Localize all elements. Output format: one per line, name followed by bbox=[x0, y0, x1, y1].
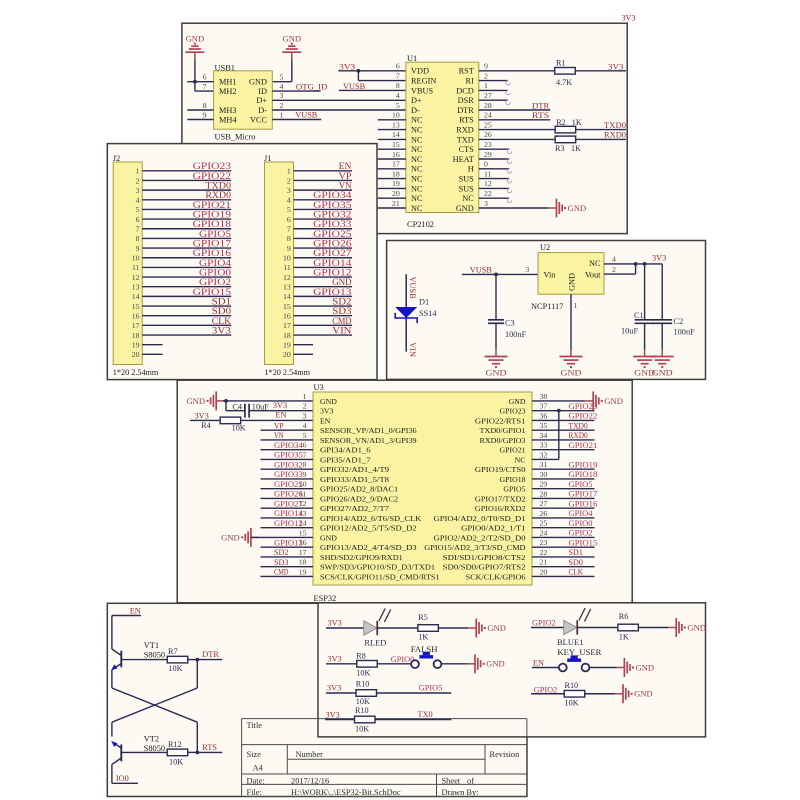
svg-text:GND: GND bbox=[186, 35, 205, 44]
svg-text:RXD: RXD bbox=[456, 126, 474, 135]
wires: U1 left NC stubs pins 10-21 bbox=[378, 120, 406, 208]
svg-text:VN: VN bbox=[339, 181, 352, 191]
svg-text:3V3: 3V3 bbox=[652, 253, 666, 262]
svg-text:SD1: SD1 bbox=[212, 296, 232, 306]
wire+label: U3 right pin 26 GPIO4 bbox=[532, 509, 595, 518]
svg-text:GND: GND bbox=[634, 690, 653, 699]
svg-text:7: 7 bbox=[303, 450, 307, 459]
svg-text:SDI/SD1/GPIO8/CTS2: SDI/SD1/GPIO8/CTS2 bbox=[443, 553, 526, 562]
svg-text:VP: VP bbox=[339, 171, 352, 181]
svg-text:GND: GND bbox=[249, 78, 267, 87]
net label 3V3 (R4 left) bbox=[195, 412, 209, 421]
resistor R8 10K bbox=[326, 651, 411, 677]
svg-text:2: 2 bbox=[484, 71, 488, 80]
ground: GPIO2 row bbox=[615, 684, 653, 703]
svg-text:GPIO17/TXD2: GPIO17/TXD2 bbox=[475, 494, 526, 503]
capacitor C4 10uF bbox=[226, 401, 313, 418]
ground: U3 pin38 bbox=[585, 391, 623, 410]
svg-text:1: 1 bbox=[303, 392, 307, 401]
svg-text:13: 13 bbox=[392, 120, 400, 129]
svg-text:RXD0: RXD0 bbox=[604, 131, 626, 140]
wire+label: U3 right pin 25 GPIO0 bbox=[532, 519, 595, 528]
svg-text:19: 19 bbox=[283, 340, 291, 349]
svg-text:14: 14 bbox=[283, 292, 291, 301]
svg-text:10: 10 bbox=[283, 254, 291, 263]
net labels: J2 pins bbox=[193, 161, 232, 335]
wire+label: U3 right pin 22 SD1 bbox=[532, 548, 595, 557]
svg-text:MH1: MH1 bbox=[219, 78, 237, 87]
svg-text:NC: NC bbox=[411, 116, 423, 125]
svg-text:26: 26 bbox=[540, 509, 548, 518]
IC U2 NCP1117 bbox=[531, 243, 604, 311]
svg-text:GPIO0/AD2_1/T1: GPIO0/AD2_1/T1 bbox=[461, 524, 526, 533]
svg-text:GPIO15: GPIO15 bbox=[193, 287, 232, 297]
sheet frame: USB / CP2102 section bbox=[182, 23, 627, 233]
stub: U1 pin27 DSR bbox=[479, 100, 510, 104]
svg-text:RXD0: RXD0 bbox=[569, 431, 588, 440]
svg-text:4: 4 bbox=[396, 91, 400, 100]
svg-text:SD2: SD2 bbox=[274, 548, 288, 557]
wire+label: U3 left pin 10 GPIO25 bbox=[261, 480, 314, 489]
svg-text:19: 19 bbox=[392, 179, 400, 188]
wire+label: U3 left pin 13 GPIO14 bbox=[261, 509, 314, 518]
wire+label: U3 right pin 37 GPIO23 bbox=[532, 402, 597, 411]
svg-text:NC: NC bbox=[411, 194, 423, 203]
svg-text:VUSB: VUSB bbox=[408, 277, 417, 300]
svg-text:USB_Micro: USB_Micro bbox=[215, 133, 256, 142]
stubs: J1 pins 19-20 bbox=[294, 345, 314, 355]
svg-text:15: 15 bbox=[299, 528, 307, 537]
svg-text:H:\WORK\..\ESP32-Bit.SchDoc: H:\WORK\..\ESP32-Bit.SchDoc bbox=[291, 788, 401, 797]
svg-text:GPIO18: GPIO18 bbox=[193, 219, 232, 229]
svg-text:GPIO0: GPIO0 bbox=[569, 519, 593, 528]
svg-text:H: H bbox=[468, 165, 474, 174]
svg-text:14: 14 bbox=[132, 292, 140, 301]
svg-text:GND: GND bbox=[568, 204, 587, 213]
svg-text:9: 9 bbox=[484, 62, 488, 71]
svg-text:GPIO13/AD2_4/T4/SD_D3: GPIO13/AD2_4/T4/SD_D3 bbox=[320, 543, 417, 552]
svg-text:GPIO26: GPIO26 bbox=[313, 238, 352, 248]
svg-text:GPIO18: GPIO18 bbox=[500, 475, 526, 484]
svg-text:GPIO13: GPIO13 bbox=[313, 287, 352, 297]
svg-text:GPIO13: GPIO13 bbox=[274, 538, 303, 547]
svg-text:32: 32 bbox=[540, 450, 548, 459]
svg-text:33: 33 bbox=[540, 441, 548, 450]
svg-text:VT1: VT1 bbox=[144, 641, 159, 650]
ground: KEY_USER row bbox=[616, 658, 654, 677]
wire+label: U3 right pin 29 GPIO5 bbox=[532, 480, 595, 489]
svg-text:13: 13 bbox=[283, 283, 291, 292]
svg-text:4: 4 bbox=[280, 82, 284, 91]
wire: USB1 pin8 MH3 bbox=[187, 109, 213, 111]
svg-text:21: 21 bbox=[392, 199, 400, 208]
resistor R2 1K (RXD to TXD0) bbox=[479, 118, 626, 133]
svg-text:GPIO34: GPIO34 bbox=[274, 441, 304, 450]
svg-text:CTS: CTS bbox=[459, 145, 475, 154]
net label GPIO2 (BLUE1 row) bbox=[532, 619, 556, 628]
svg-text:GPIO26/AD2_9/DAC2: GPIO26/AD2_9/DAC2 bbox=[320, 494, 398, 503]
LED BLUE1 bbox=[531, 608, 591, 647]
net label RXD0 bbox=[604, 131, 626, 140]
wire+label: U3 left pin 19 CMD bbox=[261, 568, 314, 577]
svg-text:NC: NC bbox=[589, 259, 601, 268]
svg-text:29: 29 bbox=[540, 480, 548, 489]
svg-text:Sheet: Sheet bbox=[442, 777, 461, 786]
wire: U3 pin1 GND bbox=[223, 400, 313, 402]
svg-text:NC: NC bbox=[411, 175, 423, 184]
svg-text:GND: GND bbox=[568, 273, 577, 291]
svg-text:of: of bbox=[467, 777, 474, 786]
svg-text:GPIO23: GPIO23 bbox=[569, 402, 598, 411]
svg-text:9: 9 bbox=[303, 470, 307, 479]
label KEY_USER bbox=[557, 648, 601, 657]
power port 3V3 (sheet corner) bbox=[622, 14, 636, 23]
svg-text:19: 19 bbox=[132, 340, 140, 349]
wire+label: U3 left pin 7 GPIO35 bbox=[261, 451, 314, 460]
wire+label: U3 right pin 31 GPIO19 bbox=[532, 460, 597, 469]
svg-text:TXD: TXD bbox=[457, 135, 474, 144]
svg-text:20: 20 bbox=[132, 350, 140, 359]
svg-text:TX0: TX0 bbox=[418, 710, 433, 719]
svg-text:VP: VP bbox=[274, 421, 284, 430]
svg-text:2: 2 bbox=[303, 402, 307, 411]
svg-text:GPIO19: GPIO19 bbox=[569, 460, 598, 469]
wire: U3 pin38 GND to ground bbox=[532, 400, 585, 402]
svg-text:GPIO22: GPIO22 bbox=[569, 412, 598, 421]
svg-text:File:: File: bbox=[247, 788, 262, 797]
svg-text:2017/12/16: 2017/12/16 bbox=[291, 777, 329, 786]
svg-text:18: 18 bbox=[283, 331, 291, 340]
svg-text:CLK: CLK bbox=[212, 316, 232, 326]
resistor R12 10K bbox=[121, 740, 197, 767]
svg-text:OTG_ID: OTG_ID bbox=[296, 82, 328, 91]
svg-text:GPIO12/AD2_5/T5/SD_D2: GPIO12/AD2_5/T5/SD_D2 bbox=[320, 524, 417, 533]
wire: USB D+ to U1 bbox=[272, 99, 406, 101]
svg-text:GPIO5: GPIO5 bbox=[419, 684, 443, 693]
svg-text:R2: R2 bbox=[556, 118, 566, 127]
svg-text:10K: 10K bbox=[355, 724, 369, 733]
svg-text:12: 12 bbox=[132, 273, 140, 282]
svg-text:CP2102: CP2102 bbox=[407, 220, 434, 229]
svg-text:GPIO2: GPIO2 bbox=[569, 529, 593, 538]
svg-text:GPIO23: GPIO23 bbox=[193, 161, 232, 171]
capacitor C2 100nF bbox=[652, 264, 695, 350]
svg-text:SWP/SD3/GPIO10/SD_D3/TXD1: SWP/SD3/GPIO10/SD_D3/TXD1 bbox=[320, 563, 435, 572]
svg-text:1: 1 bbox=[280, 110, 284, 119]
svg-text:3V3: 3V3 bbox=[328, 619, 342, 628]
svg-text:VCC: VCC bbox=[250, 115, 268, 124]
wire+label: U3 right pin 21 SD0 bbox=[532, 558, 595, 567]
svg-text:2: 2 bbox=[136, 176, 140, 185]
svg-text:SD0: SD0 bbox=[569, 558, 583, 567]
svg-text:13: 13 bbox=[132, 283, 140, 292]
svg-text:28: 28 bbox=[540, 489, 548, 498]
svg-text:CMD: CMD bbox=[274, 568, 288, 577]
transistor VT2 S8050 bbox=[111, 734, 165, 783]
svg-text:GPIO2: GPIO2 bbox=[532, 619, 556, 628]
svg-text:GPIO21: GPIO21 bbox=[500, 446, 526, 455]
wire+label: U3 right pin 23 GPIO15 bbox=[532, 538, 597, 547]
svg-text:5: 5 bbox=[136, 205, 140, 214]
svg-text:5: 5 bbox=[287, 205, 291, 214]
svg-text:SCK/CLK/GPIO6: SCK/CLK/GPIO6 bbox=[466, 572, 526, 581]
svg-text:100nF: 100nF bbox=[505, 330, 527, 339]
svg-text:GPIO32: GPIO32 bbox=[274, 460, 303, 469]
svg-text:4: 4 bbox=[136, 196, 140, 205]
svg-text:25: 25 bbox=[484, 120, 492, 129]
svg-text:15: 15 bbox=[283, 302, 291, 311]
svg-text:3: 3 bbox=[303, 411, 307, 420]
svg-text:8: 8 bbox=[136, 234, 140, 243]
svg-text:GND: GND bbox=[187, 397, 206, 406]
svg-text:GPIO17: GPIO17 bbox=[193, 238, 232, 248]
svg-text:1K: 1K bbox=[418, 632, 428, 641]
wire: VUSB to U2 Vin bbox=[462, 265, 538, 274]
svg-text:5: 5 bbox=[280, 73, 284, 82]
net label RTS and wire U1 pin24 bbox=[479, 111, 550, 120]
svg-text:GPIO27: GPIO27 bbox=[274, 499, 303, 508]
svg-text:17: 17 bbox=[132, 321, 140, 330]
svg-text:SD2: SD2 bbox=[332, 296, 352, 306]
svg-text:GPIO22/RTS1: GPIO22/RTS1 bbox=[475, 416, 526, 425]
net label IO0 bbox=[112, 774, 138, 783]
push button FALSH bbox=[411, 645, 467, 668]
svg-text:DCD: DCD bbox=[456, 86, 474, 95]
svg-text:3V3: 3V3 bbox=[622, 14, 636, 23]
svg-text:GPI35/AD1_7: GPI35/AD1_7 bbox=[320, 455, 371, 464]
ground: C3 bbox=[485, 349, 508, 378]
svg-text:SS14: SS14 bbox=[419, 309, 437, 318]
svg-text:NC: NC bbox=[411, 145, 423, 154]
svg-text:D+: D+ bbox=[256, 96, 267, 105]
svg-text:VN: VN bbox=[274, 431, 284, 440]
LED RLED bbox=[326, 609, 391, 648]
svg-text:U2: U2 bbox=[540, 243, 550, 252]
resistor R4 10K (EN pullup) bbox=[190, 417, 313, 432]
net label 3V3 (U1 VDD) bbox=[339, 62, 355, 71]
svg-text:SD3: SD3 bbox=[274, 558, 288, 567]
svg-text:6: 6 bbox=[136, 215, 140, 224]
svg-text:28: 28 bbox=[484, 101, 492, 110]
junction: DTR node bbox=[195, 658, 199, 662]
svg-text:GPIO18: GPIO18 bbox=[569, 470, 598, 479]
svg-text:17: 17 bbox=[392, 160, 400, 169]
svg-text:GND: GND bbox=[332, 277, 352, 287]
svg-text:EN: EN bbox=[275, 410, 286, 419]
svg-text:RXD0/GPIO3: RXD0/GPIO3 bbox=[480, 436, 526, 445]
svg-text:GPIO4: GPIO4 bbox=[199, 258, 231, 268]
wire+label: U3 right pin 27 GPIO16 bbox=[532, 499, 597, 508]
svg-text:GPIO16: GPIO16 bbox=[193, 248, 232, 258]
ground: BLUE1 row bbox=[668, 618, 706, 637]
svg-text:D+: D+ bbox=[411, 96, 422, 105]
svg-text:GND: GND bbox=[636, 663, 655, 672]
svg-text:3: 3 bbox=[484, 199, 488, 208]
wire: USB1 pin9 MH4 bbox=[187, 119, 213, 121]
svg-text:VIN: VIN bbox=[408, 342, 417, 357]
svg-text:38: 38 bbox=[540, 392, 548, 401]
svg-text:U3: U3 bbox=[314, 383, 324, 392]
svg-text:R12: R12 bbox=[168, 740, 182, 749]
svg-text:GPIO15/AD2_3/T3/SD_CMD: GPIO15/AD2_3/T3/SD_CMD bbox=[424, 543, 526, 552]
svg-text:SD3: SD3 bbox=[332, 306, 352, 316]
svg-text:Number: Number bbox=[296, 750, 324, 759]
wire: U1 REGIN tie bbox=[358, 71, 406, 81]
svg-text:11: 11 bbox=[484, 169, 492, 178]
svg-text:GPIO17: GPIO17 bbox=[569, 490, 598, 499]
wire+label: U3 left pin 16 GPIO13 bbox=[261, 538, 314, 547]
net label EN (VT1 collector) bbox=[112, 607, 141, 616]
junction + tie wire pin37 to pin32 bbox=[557, 409, 561, 460]
svg-text:S8050: S8050 bbox=[144, 744, 165, 753]
svg-text:EN: EN bbox=[130, 607, 141, 616]
wire+label: U3 right pin 20 CLK bbox=[532, 568, 595, 577]
svg-text:GPIO33: GPIO33 bbox=[313, 219, 352, 229]
svg-text:24: 24 bbox=[484, 111, 492, 120]
svg-text:14: 14 bbox=[392, 130, 400, 139]
junction: RTS node bbox=[195, 751, 199, 755]
svg-text:4: 4 bbox=[612, 254, 616, 263]
svg-text:1: 1 bbox=[574, 301, 578, 310]
svg-text:R10: R10 bbox=[355, 706, 369, 715]
svg-text:S8050: S8050 bbox=[144, 651, 165, 660]
svg-text:6: 6 bbox=[303, 441, 307, 450]
svg-text:1*20 2.54mm: 1*20 2.54mm bbox=[113, 368, 159, 377]
svg-text:SHD/SD2/GPIO9/RXD1: SHD/SD2/GPIO9/RXD1 bbox=[320, 553, 403, 562]
wire+label: U3 left pin 11 GPIO26 bbox=[261, 490, 314, 499]
svg-text:10K: 10K bbox=[168, 664, 182, 673]
wire+label: U3 right pin 36 GPIO22 bbox=[532, 412, 597, 421]
svg-text:MH3: MH3 bbox=[219, 106, 237, 115]
svg-text:GPIO22: GPIO22 bbox=[193, 171, 232, 181]
svg-text:TXD0: TXD0 bbox=[604, 121, 626, 130]
svg-text:9: 9 bbox=[203, 110, 207, 119]
svg-text:37: 37 bbox=[540, 402, 548, 411]
svg-text:NC: NC bbox=[411, 155, 423, 164]
svg-text:GPIO16: GPIO16 bbox=[569, 499, 598, 508]
svg-text:GPIO26: GPIO26 bbox=[274, 490, 303, 499]
svg-text:SUS: SUS bbox=[459, 184, 475, 193]
svg-text:GND: GND bbox=[283, 35, 302, 44]
svg-text:31: 31 bbox=[540, 460, 548, 469]
wire: USB1 pin6 MH1 bbox=[187, 81, 213, 83]
svg-text:GPIO35: GPIO35 bbox=[313, 200, 352, 210]
svg-text:EN: EN bbox=[533, 658, 544, 667]
svg-text:GPIO14: GPIO14 bbox=[274, 509, 304, 518]
svg-text:GND: GND bbox=[320, 397, 337, 406]
svg-text:VUSB: VUSB bbox=[295, 111, 317, 120]
svg-text:18: 18 bbox=[299, 558, 307, 567]
svg-text:7: 7 bbox=[287, 225, 291, 234]
svg-text:18: 18 bbox=[132, 331, 140, 340]
svg-text:20: 20 bbox=[540, 567, 548, 576]
net label GPIO0 (FALSH) bbox=[391, 655, 415, 664]
power port GND (right of USB1) bbox=[282, 35, 301, 60]
svg-text:24: 24 bbox=[540, 528, 548, 537]
wire: USB1 pin1 VCC bbox=[272, 119, 321, 121]
svg-text:C1: C1 bbox=[634, 311, 644, 320]
svg-text:GND: GND bbox=[486, 660, 505, 669]
net label 3V3 (TX0 row) bbox=[326, 710, 340, 719]
svg-text:GPIO0: GPIO0 bbox=[199, 267, 231, 277]
net labels: J1 pins bbox=[313, 161, 352, 335]
svg-text:GPIO4: GPIO4 bbox=[569, 509, 594, 518]
svg-text:4.7K: 4.7K bbox=[556, 78, 572, 87]
ground: U1 GND pin 3 bbox=[479, 199, 586, 218]
svg-text:C2: C2 bbox=[674, 317, 684, 326]
svg-text:1K: 1K bbox=[572, 118, 582, 127]
svg-text:5: 5 bbox=[303, 431, 307, 440]
svg-text:GPIO16/RXD2: GPIO16/RXD2 bbox=[475, 504, 526, 513]
svg-text:GND: GND bbox=[486, 369, 507, 378]
svg-text:35: 35 bbox=[540, 421, 548, 430]
svg-text:R1: R1 bbox=[556, 59, 566, 68]
svg-text:REGIN: REGIN bbox=[411, 77, 436, 86]
svg-text:1*20 2.54mm: 1*20 2.54mm bbox=[265, 368, 311, 377]
net label RTS bbox=[197, 743, 222, 752]
wire+label: U3 right pin 24 GPIO2 bbox=[532, 529, 595, 538]
wires: J2 pins 1-18 bbox=[142, 171, 231, 335]
ground: FALSH row bbox=[467, 654, 505, 673]
connector J2 1*20 2.54mm bbox=[113, 154, 159, 377]
svg-text:A4: A4 bbox=[253, 764, 264, 773]
svg-text:10: 10 bbox=[392, 111, 400, 120]
svg-text:GPIO34: GPIO34 bbox=[313, 190, 352, 200]
svg-text:10uF: 10uF bbox=[621, 327, 638, 336]
svg-text:R4: R4 bbox=[201, 421, 211, 430]
svg-text:3V3: 3V3 bbox=[328, 654, 342, 663]
junction: C3 tap bbox=[494, 273, 498, 277]
svg-text:VBUS: VBUS bbox=[411, 86, 434, 95]
svg-text:16: 16 bbox=[283, 312, 291, 321]
svg-text:SENSOR_VN/AD1_3/GPI39: SENSOR_VN/AD1_3/GPI39 bbox=[320, 436, 417, 445]
junction on MH1 wire bbox=[193, 80, 197, 84]
ground: C1 bbox=[633, 349, 656, 378]
sheet frame: power regulator section bbox=[387, 241, 706, 380]
svg-text:CLK: CLK bbox=[569, 568, 583, 577]
svg-text:NC: NC bbox=[411, 135, 423, 144]
svg-text:D1: D1 bbox=[419, 298, 429, 307]
net label DTR and wire U1 pin28 bbox=[479, 101, 550, 110]
svg-text:R6: R6 bbox=[619, 612, 629, 621]
svg-text:GPIO5: GPIO5 bbox=[199, 229, 231, 239]
svg-text:6: 6 bbox=[203, 73, 207, 82]
resistor R3 1K (TXD to RXD0) bbox=[479, 136, 626, 153]
svg-text:29: 29 bbox=[484, 150, 492, 159]
power port GND (left of USB1) bbox=[185, 35, 204, 60]
ground: U3 pin1 GND (top left) bbox=[187, 391, 225, 410]
junction: C1 tap bbox=[643, 262, 647, 266]
net label OTG_ID bbox=[296, 82, 328, 91]
svg-text:NC: NC bbox=[411, 184, 423, 193]
sheet frame: ESP32 section bbox=[177, 380, 632, 603]
svg-text:3: 3 bbox=[525, 265, 529, 274]
svg-text:6: 6 bbox=[396, 62, 400, 71]
svg-text:C3: C3 bbox=[505, 319, 515, 328]
svg-text:2: 2 bbox=[280, 101, 284, 110]
junction: C4 tap bbox=[224, 399, 228, 403]
title block bbox=[242, 719, 527, 797]
junction: Vout rail bbox=[634, 262, 638, 266]
svg-text:GPIO21: GPIO21 bbox=[193, 200, 232, 210]
wire+label: U3 left pin 12 GPIO27 bbox=[261, 499, 314, 508]
svg-text:100nF: 100nF bbox=[674, 327, 696, 336]
svg-text:23: 23 bbox=[484, 140, 492, 149]
svg-text:GPIO2/AD2_2/T2/SD_D0: GPIO2/AD2_2/T2/SD_D0 bbox=[434, 533, 526, 542]
svg-text:3V3: 3V3 bbox=[326, 710, 340, 719]
svg-text:DTR: DTR bbox=[202, 650, 219, 659]
net label 3V3 (GPIO5 row) bbox=[327, 684, 341, 693]
